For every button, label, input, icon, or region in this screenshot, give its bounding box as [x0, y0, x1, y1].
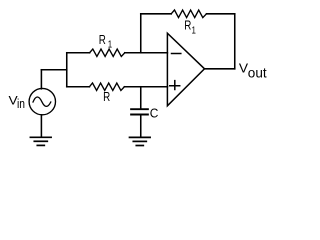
wire: Vin source bottom stub: [40, 115, 42, 137]
wire: left vertical input split: [66, 53, 68, 87]
resistor R1 (input, middle): [90, 49, 125, 57]
ground (below C): [130, 137, 151, 145]
wire: feedback vertical from minus node up: [140, 14, 142, 53]
wire: plus row right segment to op-amp: [124, 86, 167, 88]
wire: top right horizontal: [207, 13, 235, 15]
wire: right vertical down to output: [234, 14, 236, 69]
ground (Vin source): [30, 137, 51, 145]
wire: op-amp output to Vout node: [205, 68, 235, 70]
capacitor C: [131, 109, 148, 114]
svg-text:in: in: [17, 97, 25, 111]
svg-text:out: out: [248, 65, 267, 80]
wire: cap bottom stem: [140, 115, 142, 136]
resistor R1 (feedback, top): [171, 10, 206, 18]
svg-text:R: R: [99, 33, 106, 47]
svg-text:C: C: [150, 105, 159, 120]
wire: minus row left segment: [67, 52, 90, 54]
op-amp U1: [167, 33, 204, 106]
wire: Vin horizontal: [41, 69, 66, 71]
op-amp minus pin label: [172, 53, 181, 55]
svg-text:1: 1: [192, 26, 197, 37]
wire: top left horizontal: [141, 13, 171, 15]
wire: Vin source top stub: [40, 70, 42, 89]
wire: cap top stem from plus row: [140, 87, 142, 109]
resistor R: [89, 83, 124, 91]
op-amp plus pin label: [170, 81, 180, 90]
svg-text:R: R: [184, 19, 191, 33]
wire: minus row right segment to op-amp: [125, 52, 168, 54]
AC source sine wave: [33, 97, 51, 106]
AC source V1 circle: [29, 88, 55, 114]
svg-text:1: 1: [108, 39, 113, 50]
wire: plus row left segment: [67, 86, 90, 88]
svg-text:R: R: [103, 90, 110, 104]
